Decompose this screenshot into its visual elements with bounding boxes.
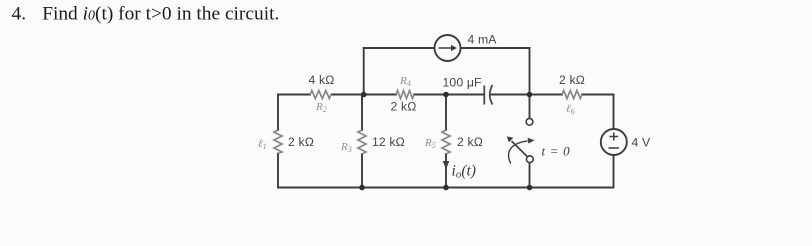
wire top branch left vertical — [363, 48, 365, 95]
resistor R1 2k zigzag — [274, 130, 282, 154]
wire switch branch upper — [529, 95, 531, 119]
resistor R6 2k zigzag — [562, 91, 582, 99]
wire right vertical upper — [613, 95, 615, 130]
wire left vertical upper — [277, 95, 279, 131]
wire R5 branch upper — [445, 95, 447, 131]
current source I1 4mA — [435, 35, 461, 61]
svg-text:2 kΩ: 2 kΩ — [288, 135, 314, 149]
svg-text:100 μF: 100 μF — [443, 76, 482, 90]
svg-text:2 kΩ: 2 kΩ — [391, 100, 417, 114]
svg-text:2 kΩ: 2 kΩ — [559, 73, 585, 87]
wire middle rail capacitor to node C — [492, 94, 563, 96]
wire top branch right horizontal — [461, 47, 530, 49]
resistor R3 12k zigzag — [358, 130, 366, 154]
node bottom switch dot — [527, 185, 533, 191]
wire middle rail between R4 and capacitor — [414, 94, 484, 96]
arrow i0 — [443, 161, 450, 169]
voltage source V1 4V — [601, 129, 627, 155]
resistor R4 2k zigzag — [396, 91, 414, 99]
svg-text:t = 0: t = 0 — [542, 143, 571, 158]
wire 12k branch lower — [361, 154, 363, 188]
wire 12k branch upper — [361, 95, 363, 131]
svg-text:io(t): io(t) — [452, 162, 476, 180]
node bottom 12k dot — [359, 185, 365, 191]
wire middle rail between R2 and node A — [332, 94, 396, 96]
node C dot — [527, 92, 533, 98]
capacitor C1 100uF plates — [484, 85, 492, 105]
svg-text:4. Find i0(t) for t>0 in the: 4. Find i0(t) for t>0 in the circuit. — [12, 4, 280, 25]
node A dot — [361, 92, 367, 98]
switch S1 — [507, 118, 535, 163]
resistor R2 4k zigzag — [310, 91, 331, 99]
wire top branch left horizontal — [364, 47, 435, 49]
wire middle rail node C to right corner — [582, 94, 614, 96]
resistor R5 2k zigzag — [442, 130, 450, 154]
wire top branch right vertical — [529, 48, 531, 95]
wire R5 branch lower — [445, 154, 447, 188]
svg-text:4 kΩ: 4 kΩ — [309, 73, 335, 87]
svg-text:4 V: 4 V — [632, 135, 651, 149]
wire left vertical lower — [277, 154, 279, 188]
wire switch branch lower — [529, 163, 531, 188]
wire bottom rail — [278, 187, 614, 189]
node B dot — [443, 92, 449, 98]
wire right vertical lower — [613, 155, 615, 188]
wire middle rail left segment — [278, 94, 310, 96]
node bottom R5 dot — [443, 185, 449, 191]
svg-text:12 kΩ: 12 kΩ — [372, 135, 405, 149]
svg-text:4 mA: 4 mA — [468, 33, 498, 47]
svg-text:2 kΩ: 2 kΩ — [457, 135, 483, 149]
